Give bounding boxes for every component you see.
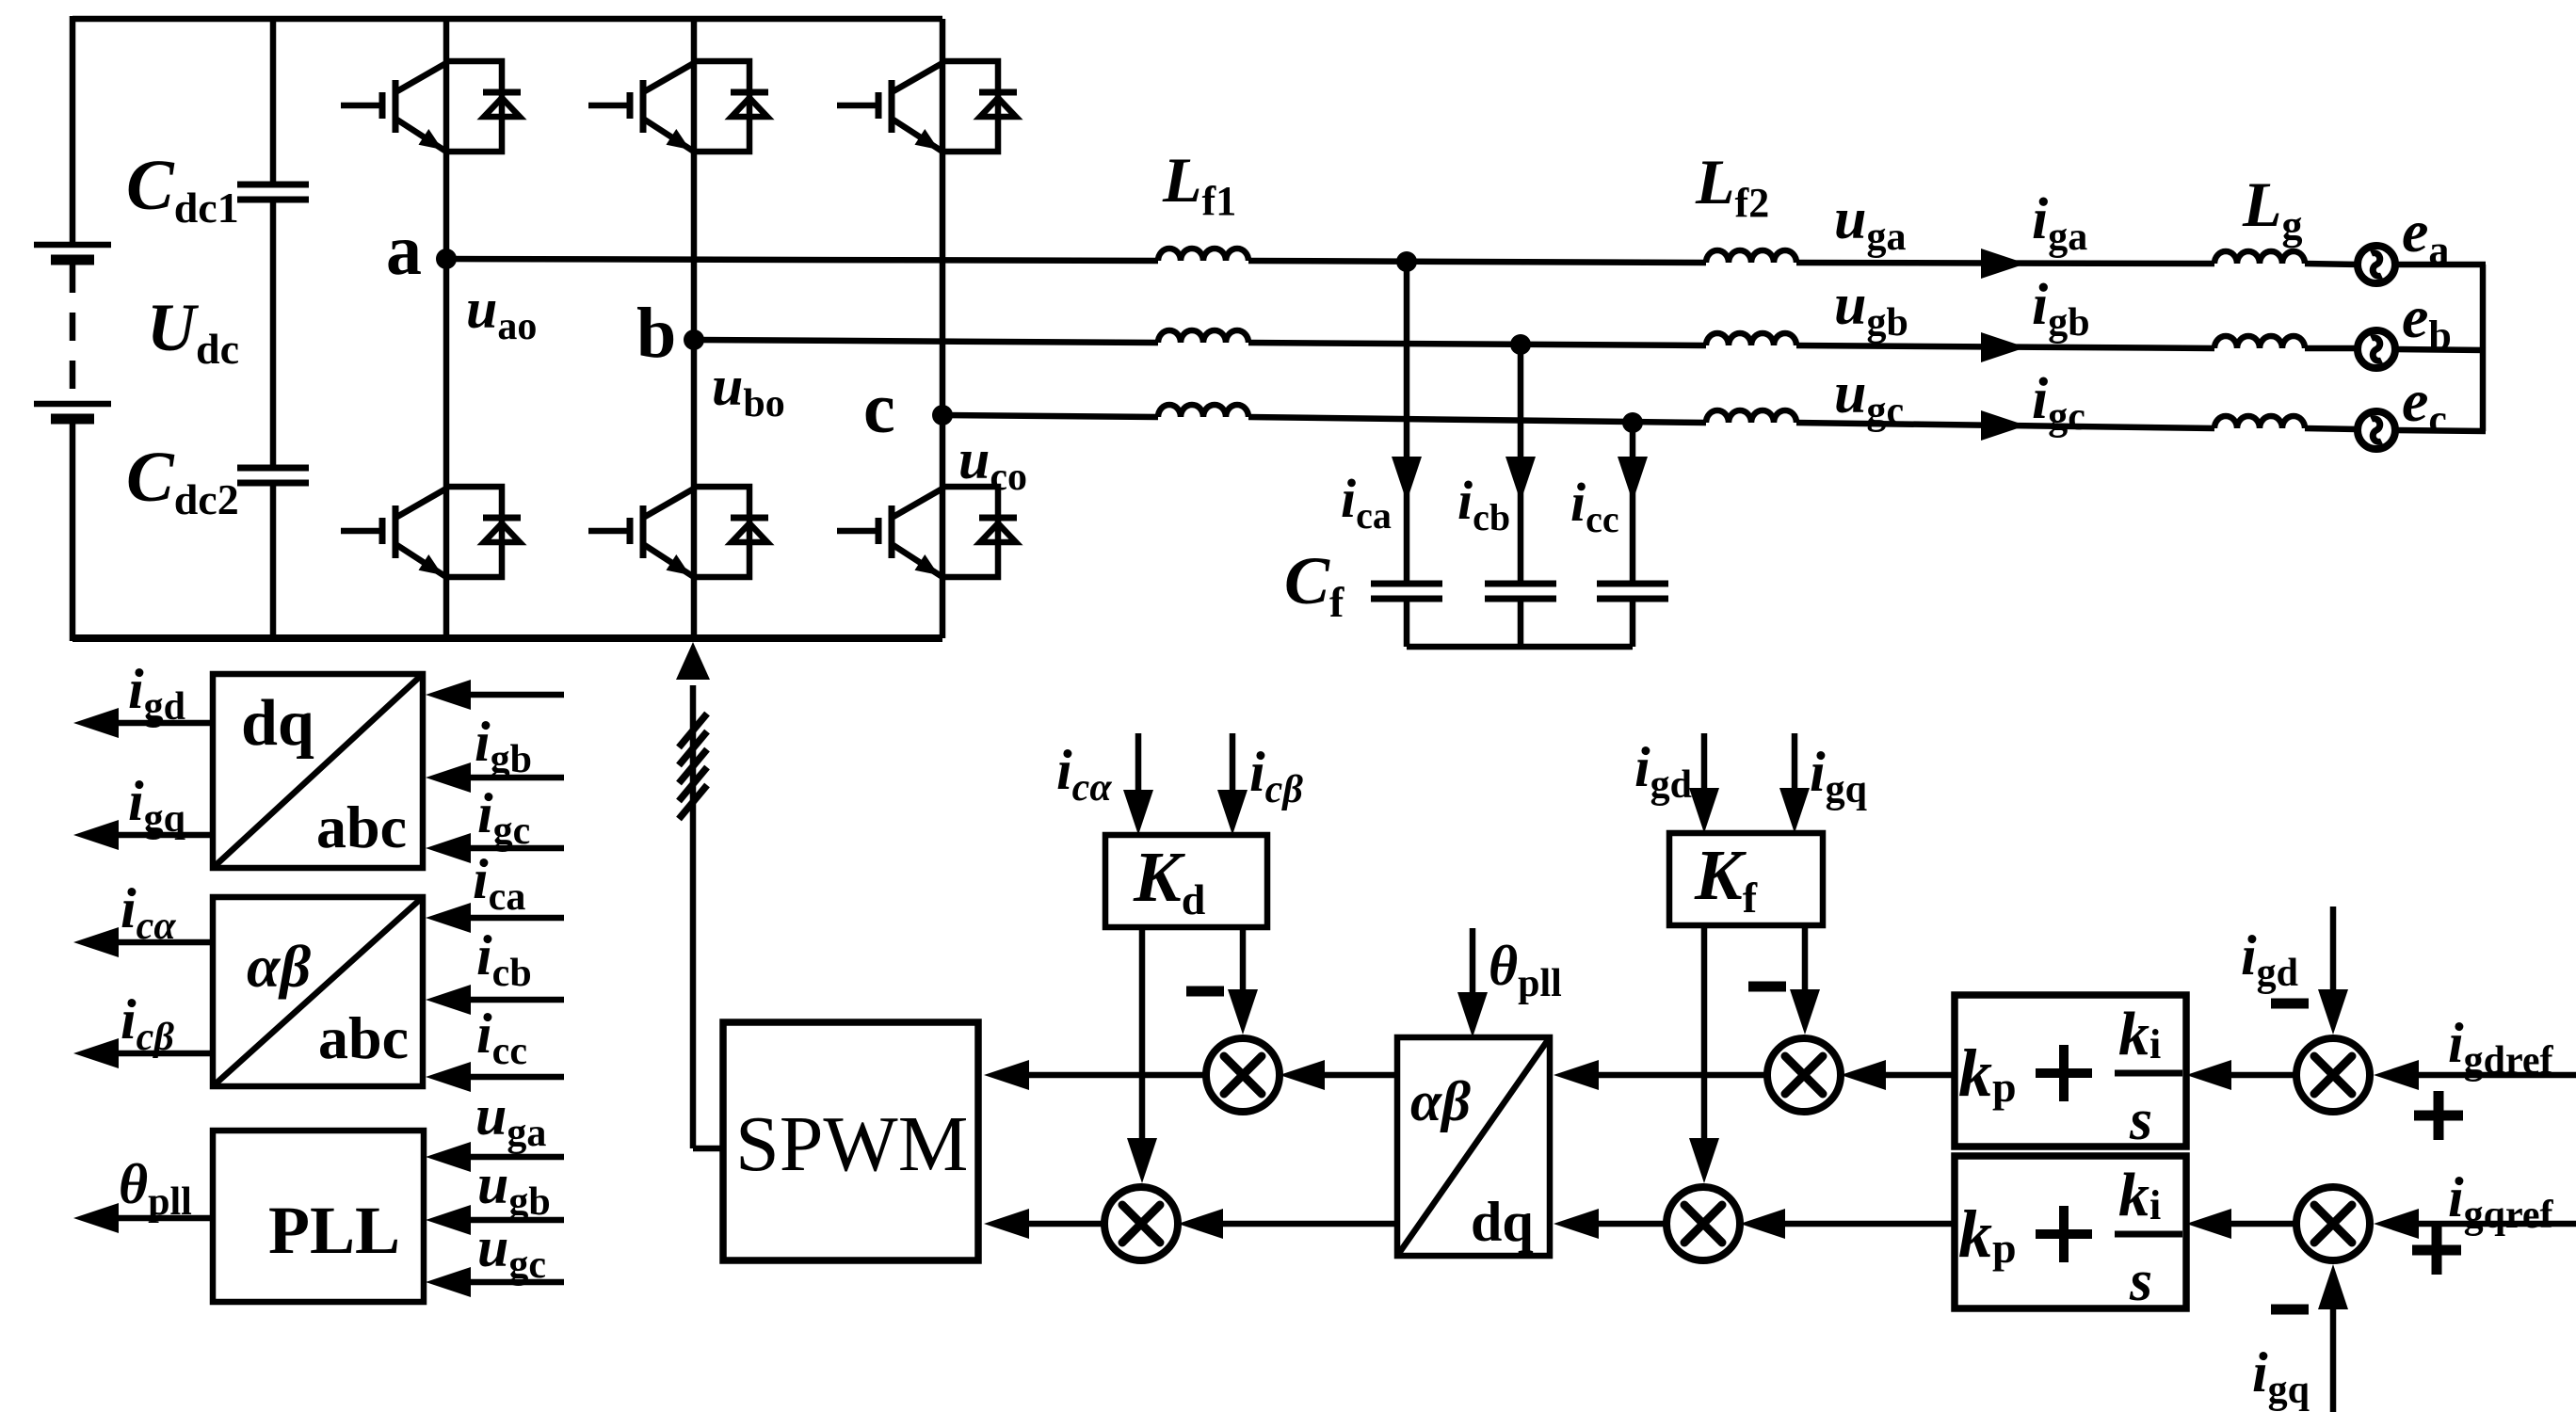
svg-text:c: c [863, 369, 895, 448]
svg-text:a: a [386, 211, 422, 290]
svg-text:s: s [2129, 1249, 2152, 1313]
svg-text:abc: abc [316, 794, 407, 860]
svg-text:s: s [2129, 1088, 2152, 1152]
svg-text:αβ: αβ [1410, 1070, 1471, 1132]
svg-text:dq: dq [241, 687, 314, 760]
svg-text:abc: abc [318, 1004, 409, 1071]
svg-text:dq: dq [1471, 1191, 1534, 1253]
svg-text:PLL: PLL [268, 1193, 400, 1268]
svg-text:SPWM: SPWM [735, 1100, 968, 1188]
svg-text:b: b [636, 294, 676, 373]
svg-text:αβ: αβ [247, 933, 311, 1000]
